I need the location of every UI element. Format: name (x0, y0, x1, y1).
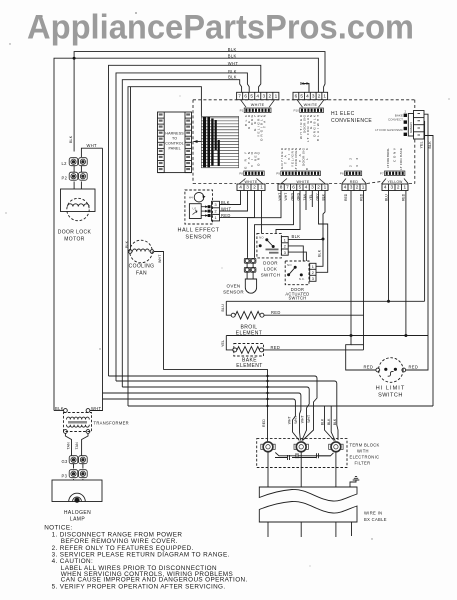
pin cell marks P13 (418, 114, 421, 136)
svg-text:BLK: BLK (318, 249, 322, 257)
svg-text:BLK: BLK (228, 47, 237, 52)
wire BLK L2-to-P12 pin1 (outer loop) (74, 52, 325, 152)
wire BLK inner loop to P11 (122, 80, 241, 387)
svg-text:CONVECT: CONVECT (388, 118, 403, 122)
bake element resistor (237, 347, 259, 354)
wire broil-top YEL bus (226, 300, 424, 302)
junction L2/BLK bus (73, 57, 76, 60)
bx cable band 2 (259, 501, 357, 522)
door actuated contact b (300, 273, 303, 276)
svg-text:COOLING: COOLING (129, 264, 155, 270)
door lock switch tiny text (266, 249, 279, 251)
connector P7 (yellow 4-pin) (382, 184, 408, 191)
wire hi-limit right to bake-top (406, 336, 428, 371)
connector P11 (white 7-pin) (237, 92, 279, 99)
svg-text:RED: RED (271, 345, 281, 350)
svg-text:WHT: WHT (91, 406, 102, 411)
svg-text:ELEMENT: ELEMENT (236, 363, 262, 369)
broil element terminal left (231, 313, 235, 317)
pin header P9 (281, 171, 321, 176)
wire P9-5 to door lock switch box (276, 191, 300, 234)
svg-text:ELECTRONIC: ELECTRONIC (350, 455, 380, 460)
wire P9-6 to oven sensor right (255, 191, 294, 258)
svg-text:TERM BLOCK: TERM BLOCK (350, 443, 380, 448)
svg-text:P6: P6 (340, 172, 344, 176)
cooling fan terminal right (150, 250, 154, 254)
svg-text:3: 3 (311, 185, 314, 190)
svg-text:WHT: WHT (294, 416, 298, 424)
wire BLK P9-1 to door actuated switch 1 (316, 191, 325, 267)
svg-text:3: 3 (350, 185, 353, 190)
wire WHT L2 feed (81, 148, 102, 157)
svg-text:4: 4 (306, 94, 309, 99)
svg-text:BLK: BLK (327, 418, 331, 425)
oven sensor bulb (245, 279, 256, 293)
svg-text:TAN: TAN (75, 442, 79, 450)
svg-text:2: 2 (214, 210, 216, 214)
wire RED hall to P8 (220, 191, 255, 218)
svg-text:1: 1 (284, 238, 286, 242)
P6 pin top labels (349, 158, 360, 167)
svg-text:NOTICE:: NOTICE: (44, 524, 72, 531)
terminal L1 (261, 442, 275, 452)
hi limit terminal right (402, 368, 406, 372)
hi limit contact a (384, 368, 387, 371)
svg-text:2: 2 (318, 94, 321, 99)
door lock motor rotor (dashed circle) (67, 198, 89, 220)
door actuated switch dashed box (285, 261, 309, 285)
crossing mark 6 (266, 405, 268, 407)
pin header P6 (345, 171, 362, 176)
svg-text:ORG: ORG (257, 151, 261, 166)
wire oven pair link right (252, 263, 254, 267)
broil element terminal right (260, 313, 264, 317)
svg-text:BLK: BLK (428, 141, 432, 149)
connector L2 (69, 158, 87, 166)
wire BLK-3 to term block 3 (116, 381, 338, 440)
broil element resistor (235, 311, 259, 319)
connector G3 (69, 456, 87, 464)
svg-text:3: 3 (262, 94, 265, 99)
ground (350, 480, 356, 487)
connector P12 white shell (297, 100, 324, 108)
transformer terminal br (86, 430, 90, 434)
svg-text:P9: P9 (276, 172, 280, 176)
svg-text:7: 7 (286, 185, 289, 190)
svg-text:33: 33 (355, 158, 359, 167)
svg-text:H1 ELEC: H1 ELEC (331, 111, 355, 117)
svg-text:H4: H4 (189, 196, 193, 200)
P6 wire color labels (344, 193, 364, 201)
hall sensor wires to pins (201, 207, 207, 216)
wire BLK bus bottom (128, 405, 433, 407)
svg-text:LT FOR BAKE: LT FOR BAKE (399, 148, 403, 170)
svg-text:1: 1 (275, 94, 278, 99)
wire RED broil to P6 (264, 314, 364, 316)
svg-text:P7: P7 (380, 172, 384, 176)
svg-text:P8: P8 (239, 172, 243, 176)
svg-text:N.C.: N.C. (299, 277, 305, 281)
labels WHT term feeds (288, 415, 338, 425)
svg-text:YELLOW: YELLOW (387, 180, 402, 184)
wire L2 to P2 left (73, 166, 75, 172)
svg-text:3: 3 (390, 185, 393, 190)
svg-text:BLK: BLK (321, 418, 325, 425)
svg-text:FAN: FAN (136, 271, 147, 277)
svg-text:5: 5 (250, 94, 253, 99)
door lock motor box (61, 189, 96, 212)
crossing mark 1 (266, 375, 268, 377)
svg-text:2: 2 (317, 185, 320, 190)
svg-text:WHT: WHT (301, 415, 305, 423)
connector P11 white shell (241, 100, 275, 108)
ribbon cable dark bars (203, 117, 220, 167)
svg-text:U1: U1 (193, 206, 197, 210)
connector P3 (69, 470, 87, 478)
door actuated switch lever (289, 267, 296, 275)
crossing mark 2 (266, 380, 268, 382)
connector P6 red shell (342, 179, 367, 185)
wire stub right at 344.7 (351, 344, 364, 346)
wire BLU P7-4 down (388, 191, 390, 302)
svg-text:6: 6 (295, 94, 298, 99)
cooling fan wire BLK (130, 87, 132, 250)
svg-text:TO: TO (172, 137, 177, 141)
pin header P7 (385, 171, 405, 176)
wire RED bake to P6 (264, 349, 364, 351)
pin header P1 (244, 108, 271, 113)
transformer primary winding (67, 417, 90, 419)
svg-text:BLK: BLK (69, 135, 73, 143)
wire RED P7-1 down (405, 191, 407, 336)
junction P6 on bake-top (350, 334, 353, 337)
svg-text:3: 3 (284, 251, 286, 255)
svg-text:BLK: BLK (228, 69, 237, 74)
wire BLK hook above P12 (302, 84, 310, 93)
wire stub P9-4 (305, 191, 307, 211)
svg-text:LT FOR GAS/VSMC: LT FOR GAS/VSMC (375, 128, 404, 132)
door lock switch connector (281, 237, 288, 256)
door actuated switch connector (310, 263, 316, 281)
wire P8-4 to door lock switch (261, 191, 263, 234)
bake element terminal right (260, 348, 264, 352)
notice text block (44, 524, 247, 590)
ribbon cable bundle (201, 116, 238, 167)
P11 pin wire labels (244, 114, 267, 141)
wire YEL P13-2 to broil-top line (423, 121, 426, 301)
hi limit terminal left (376, 368, 380, 372)
svg-text:3: 3 (214, 203, 216, 207)
wire BLK P13-4 down right side (424, 136, 433, 407)
wire N to bx cable (300, 452, 302, 487)
junction BLU on broil-top (387, 300, 390, 303)
svg-text:P10: P10 (294, 109, 300, 113)
halogen lamp filament dot (74, 498, 79, 503)
svg-text:BX CABLE: BX CABLE (364, 517, 387, 522)
wire L2b to bx cable (335, 452, 337, 487)
wire L2 to P2 right (80, 166, 82, 172)
svg-text:3: 3 (312, 94, 315, 99)
svg-text:NO: NO (259, 235, 264, 239)
term block dashed box (257, 439, 347, 468)
door lock motor winding (68, 204, 90, 207)
terminal N (294, 442, 308, 452)
wire oven bulb right (252, 272, 254, 279)
transformer terminal bl (64, 430, 68, 434)
svg-text:OVEN: OVEN (227, 284, 241, 289)
halogen lamp box (52, 480, 102, 502)
wire BLK into transformer (54, 410, 63, 412)
svg-text:RED: RED (262, 419, 266, 427)
wire P3 to lamp right (82, 479, 84, 480)
wire RED to term block 1 (164, 370, 268, 442)
connector P9 white shell (281, 179, 326, 185)
bx cable band 1 (259, 487, 357, 501)
svg-text:RED: RED (409, 365, 419, 370)
svg-text:BLK: BLK (333, 418, 337, 425)
wire G3 to P3 right (82, 464, 84, 469)
svg-text:NO: NO (287, 263, 292, 267)
svg-text:2: 2 (356, 185, 359, 190)
wire P3 to lamp left (73, 479, 75, 480)
crossing mark 3 (266, 386, 268, 388)
wire YEL bake feed (226, 336, 233, 350)
svg-text:WHITE: WHITE (304, 103, 318, 107)
wire TAN left (65, 433, 71, 455)
svg-text:YEL: YEL (221, 340, 225, 347)
svg-text:WHT: WHT (228, 61, 239, 66)
term block filter bus 1 (275, 453, 333, 456)
filter capacitor 2 (288, 455, 290, 460)
svg-text:BLK: BLK (305, 147, 309, 170)
svg-text:2: 2 (284, 245, 286, 249)
svg-text:RED: RED (402, 193, 406, 201)
svg-text:1: 1 (323, 94, 326, 99)
terminal L2b (329, 442, 343, 452)
svg-text:RED: RED (221, 213, 231, 218)
svg-text:SWITCH: SWITCH (378, 393, 403, 399)
svg-text:SWITCH: SWITCH (261, 273, 281, 278)
svg-text:4: 4 (256, 94, 259, 99)
wire bx exit 2 (300, 522, 302, 537)
svg-text:BLU/WHT: BLU/WHT (316, 115, 320, 141)
svg-text:4: 4 (305, 185, 308, 190)
wire RED P6-3 down (350, 191, 352, 336)
P9 wire color labels (278, 192, 326, 200)
svg-text:CONVENIENCE: CONVENIENCE (331, 118, 372, 124)
svg-text:RED: RED (271, 310, 281, 315)
oven sensor connector pair 1 (244, 258, 256, 263)
P7 wire color labels (384, 193, 405, 201)
svg-text:BLK: BLK (221, 200, 230, 205)
H1 elec convenience dashed box (193, 100, 415, 184)
wire L1 to bx cable (267, 452, 269, 487)
oven sensor connector pair 2 (244, 267, 256, 272)
bake element terminal left (233, 348, 237, 352)
svg-text:SENSOR: SENSOR (223, 290, 244, 295)
svg-text:3: 3 (246, 185, 249, 190)
connector P13 bake/convect (408, 111, 424, 140)
svg-text:AppliancePartsPros.com: AppliancePartsPros.com (27, 9, 414, 47)
cooling fan winding (133, 249, 150, 252)
P8 pin top labels (244, 151, 261, 169)
transformer dashed box (64, 413, 92, 432)
svg-text:RED: RED (344, 193, 348, 201)
svg-text:WITH: WITH (357, 449, 369, 454)
svg-text:BLK: BLK (125, 240, 129, 248)
svg-text:P3: P3 (62, 474, 68, 479)
transformer terminal tl (64, 409, 68, 413)
P9 pin top labels (280, 147, 309, 171)
svg-text:WHT: WHT (307, 415, 311, 423)
svg-text:2: 2 (312, 271, 314, 275)
wire WHT-1 to term block 2 (103, 399, 300, 441)
wire oven pair link left (246, 263, 248, 267)
door actuated contact a (287, 273, 290, 276)
wire WHT neutral drop to transformer (90, 148, 103, 410)
svg-text:P2: P2 (62, 176, 68, 181)
door lock switch lever (267, 240, 273, 247)
door lock switch pivot (265, 238, 268, 241)
svg-text:6: 6 (244, 94, 247, 99)
wire WHT-3 to term block 2 (122, 387, 309, 441)
svg-text:BLU: BLU (384, 194, 388, 201)
term block filter bus 2 (275, 457, 316, 459)
crossing mark 5 (266, 398, 268, 400)
connector P12 (white 6-pin) (293, 92, 328, 99)
hall sensor IC box (189, 204, 201, 219)
svg-text:G3: G3 (62, 459, 69, 464)
svg-text:DOOR: DOOR (263, 261, 278, 266)
hall sensor rotor circle (194, 192, 204, 202)
hall sensor connector (212, 201, 220, 221)
svg-text:GREEN: GREEN (409, 122, 413, 133)
cooling fan WHT wire (154, 252, 164, 370)
svg-text:LT FOR BROIL: LT FOR BROIL (386, 148, 390, 168)
svg-text:4: 4 (239, 185, 242, 190)
svg-text:MOTOR: MOTOR (64, 237, 85, 243)
connector P9 (white 8-pin) (278, 184, 328, 191)
svg-text:WHITE: WHITE (296, 180, 309, 184)
wire loop to harness ribbon (128, 87, 201, 406)
wire door lock 1 to BLK junction (288, 239, 323, 241)
wire to hi-limit left (346, 336, 376, 371)
svg-text:4: 4 (344, 185, 347, 190)
svg-text:1: 1 (362, 185, 365, 190)
svg-text:BLK: BLK (228, 75, 237, 80)
svg-text:WHITE: WHITE (251, 103, 265, 107)
harness arrow to ribbon (194, 141, 202, 143)
harness block pin labels left (159, 113, 163, 170)
svg-text:SWITCH: SWITCH (289, 296, 307, 301)
connector P8 white shell (239, 179, 263, 185)
filter capacitor 3 (317, 453, 331, 458)
svg-text:5: 5 (300, 94, 303, 99)
svg-text:WHT: WHT (284, 193, 288, 201)
svg-text:FILTER: FILTER (355, 461, 371, 466)
svg-text:3: 3 (312, 277, 314, 281)
wire door lock 2 down (288, 246, 303, 261)
svg-text:RED: RED (364, 365, 374, 370)
svg-text:LT FOR OVEN: LT FOR OVEN (294, 148, 298, 171)
svg-text:CONV: CONV (393, 147, 397, 162)
crossing mark 4 (266, 392, 268, 394)
wire BLK transformer-to-P12 pin2 loop (54, 58, 318, 410)
svg-text:LAMP: LAMP (70, 517, 85, 523)
svg-text:RED: RED (350, 180, 359, 184)
svg-text:BLK: BLK (292, 234, 301, 239)
svg-text:P1: P1 (240, 109, 244, 113)
wire stub P9-3 (311, 191, 313, 208)
connector P6 (red 4-pin) (342, 184, 366, 191)
svg-text:SENSOR: SENSOR (185, 235, 211, 241)
svg-text:HARNESS: HARNESS (165, 132, 184, 136)
P7 pin top labels (386, 147, 403, 170)
svg-text:TAN: TAN (67, 442, 71, 450)
junction P7 on bake-top (404, 334, 407, 337)
connector P8 (white 4-pin) (237, 184, 265, 191)
svg-text:WIRE IN: WIRE IN (364, 511, 382, 516)
svg-text:PANEL: PANEL (168, 147, 180, 151)
wire WHT-4 to term block 2 (109, 376, 318, 441)
svg-text:TRANSFORMER: TRANSFORMER (94, 421, 129, 426)
svg-text:2: 2 (405, 110, 407, 114)
svg-text:2: 2 (397, 185, 400, 190)
svg-text:WHT: WHT (87, 143, 98, 148)
wire bx exit 1 (267, 522, 269, 537)
svg-text:WHT: WHT (158, 254, 162, 263)
wire P13-1 to bake-top line (424, 114, 428, 335)
wire oven bulb left (246, 272, 248, 279)
wire P9-8 to oven sensor left (248, 191, 282, 258)
wire BLK-2 drop to term block 3 (331, 406, 335, 441)
svg-text:6: 6 (292, 185, 295, 190)
svg-text:WHITE: WHITE (244, 180, 257, 184)
wire TAN right (82, 433, 88, 455)
pin header P10 (300, 108, 324, 113)
svg-text:1: 1 (260, 185, 263, 190)
wire BLK-1 drop to term block 3 (325, 406, 335, 441)
svg-text:22: 22 (349, 158, 353, 167)
connector P2 (69, 172, 87, 180)
hi limit switch circle (379, 358, 404, 383)
svg-text:HI LIMIT: HI LIMIT (376, 386, 405, 392)
hi limit contact b (394, 368, 397, 371)
connector P7 yellow shell (382, 179, 409, 185)
svg-text:BLU: BLU (221, 304, 225, 312)
wire G3 to P3 left (73, 464, 75, 469)
svg-text:CONTROL: CONTROL (165, 142, 184, 146)
wire P2 to motor right (80, 182, 82, 190)
junction BLK door lock 1 (322, 238, 325, 241)
door lock switch contact a (259, 244, 262, 247)
hall effect sensor dashed box (185, 190, 213, 224)
harness to control panel block (158, 112, 192, 173)
svg-text:4: 4 (384, 185, 387, 190)
svg-text:BLK: BLK (228, 54, 237, 59)
wire BLU broil feed (226, 301, 231, 315)
svg-text:5. VERIFY PROPER OPERATION AFT: 5. VERIFY PROPER OPERATION AFTER SERVICI… (52, 583, 226, 590)
P12 pin wire labels (299, 114, 320, 142)
svg-text:2: 2 (253, 185, 256, 190)
door actuated pivot (294, 266, 297, 269)
svg-text:TAN: TAN (263, 115, 267, 128)
svg-text:7: 7 (238, 94, 241, 99)
wire BLK loop to P11 (116, 73, 249, 381)
hi limit bimetal (388, 371, 394, 376)
svg-text:1: 1 (312, 265, 314, 269)
wire WHT hall to P8 (220, 191, 248, 212)
